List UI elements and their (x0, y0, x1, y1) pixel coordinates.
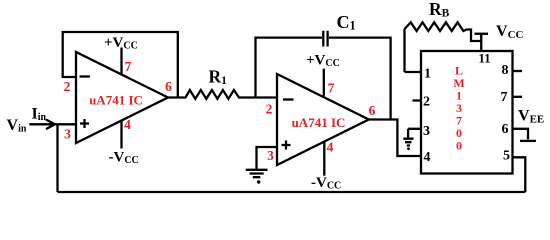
svg-text:7: 7 (125, 59, 132, 74)
svg-text:3: 3 (64, 127, 71, 142)
svg-text:2: 2 (64, 79, 71, 94)
svg-text:7: 7 (328, 81, 335, 96)
svg-text:5: 5 (503, 149, 510, 164)
svg-text:3: 3 (267, 148, 274, 163)
svg-text:2: 2 (423, 95, 430, 110)
svg-text:6: 6 (369, 103, 376, 118)
svg-text:2: 2 (266, 102, 273, 117)
svg-text:11: 11 (478, 51, 490, 66)
svg-text:uA741 IC: uA741 IC (89, 93, 143, 108)
svg-text:4: 4 (327, 140, 334, 155)
svg-text:0: 0 (456, 139, 462, 153)
svg-text:6: 6 (165, 79, 172, 94)
svg-text:3: 3 (423, 124, 430, 139)
svg-text:4: 4 (424, 150, 431, 165)
svg-text:1: 1 (424, 67, 431, 82)
svg-text:6: 6 (502, 122, 509, 137)
svg-text:uA741 IC: uA741 IC (292, 115, 346, 130)
svg-text:7: 7 (501, 90, 508, 105)
svg-text:8: 8 (502, 63, 509, 78)
svg-text:4: 4 (124, 117, 131, 132)
